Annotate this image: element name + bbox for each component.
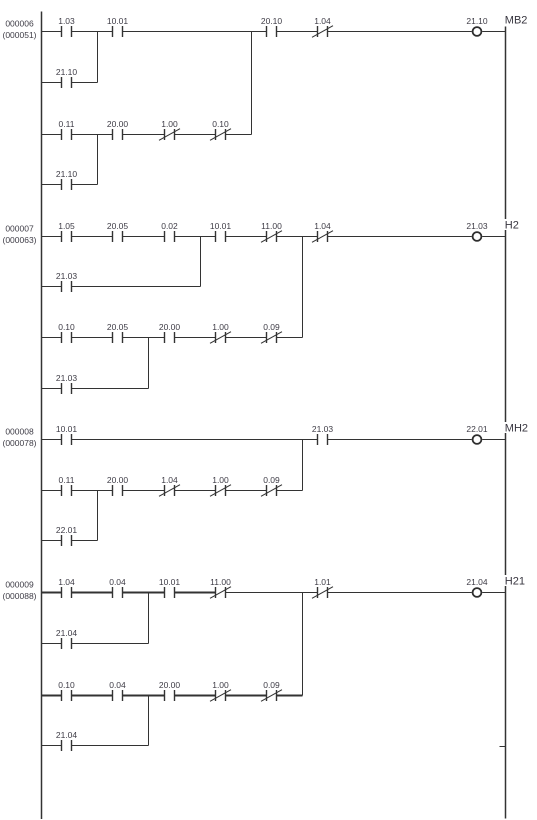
svg-text:000007: 000007	[5, 224, 34, 234]
svg-text:0.02: 0.02	[161, 221, 178, 231]
wire 11.00 to 1.01 (via node x302)	[226, 592, 318, 594]
wire 11.00 to 1.04 (via node x302)	[277, 236, 318, 238]
svg-text:(000088): (000088)	[2, 591, 36, 601]
wire 21.03 branch2 to node x148 rung7	[72, 388, 149, 390]
svg-text:MB2: MB2	[505, 15, 528, 27]
vertical wire node x302 rung9	[302, 593, 304, 696]
contact 21.10 (NO)	[56, 67, 78, 88]
contact 0.11 (NO)	[59, 475, 75, 496]
wire 10.01 to 11.00 rung9 (bold)	[175, 592, 216, 594]
svg-text:20.10: 20.10	[261, 16, 283, 26]
wire 1.01 to coil 21.04	[328, 592, 472, 594]
wire 0.11 to 20.00 (via node x97) rung8	[72, 490, 113, 492]
svg-text:(000063): (000063)	[2, 235, 36, 245]
wire 20.00 to 1.00 rung7	[175, 337, 216, 339]
wire 1.00 to 0.09 rung8	[226, 490, 267, 492]
contact 20.00 (NO)	[159, 680, 181, 701]
vertical wire node x148 sub rung9	[148, 696, 150, 746]
rung label 000006 (000051)	[2, 19, 36, 41]
wire 21.10 branch2 to node rung6	[72, 184, 98, 186]
contact 0.09 (NC)	[261, 680, 282, 702]
vertical wire node x97 sub rung8	[97, 491, 99, 541]
wire 20.00 to 1.04 rung8	[123, 490, 165, 492]
contact 21.04 (NO)	[56, 730, 78, 751]
vertical wire node x302 rung7	[302, 237, 304, 338]
svg-text:1.03: 1.03	[58, 16, 75, 26]
svg-text:(000051): (000051)	[2, 30, 36, 40]
contact 0.09 (NC)	[261, 322, 282, 344]
wire coil 22.01 to right rail	[482, 439, 505, 441]
contact 1.03 (NO)	[58, 16, 75, 37]
output device label H21	[504, 575, 530, 588]
vertical wire node x148 sub rung7	[148, 338, 150, 389]
svg-text:10.01: 10.01	[210, 221, 232, 231]
contact 1.00 (NC)	[210, 680, 231, 702]
svg-text:21.10: 21.10	[56, 169, 78, 179]
svg-text:21.03: 21.03	[56, 373, 78, 383]
wire rail to 0.10 rung7	[42, 337, 62, 339]
wire 0.02 to 10.01 (via node x199)	[175, 236, 216, 238]
wire 0.10 to 0.04 rung9 (bold)	[72, 695, 113, 697]
coil 21.10	[466, 16, 488, 36]
vertical wire node x199 rung7	[200, 237, 202, 287]
svg-text:10.01: 10.01	[107, 16, 129, 26]
wire rail to 1.05	[42, 236, 62, 238]
svg-text:20.00: 20.00	[107, 119, 129, 129]
output device label MH2	[504, 422, 530, 435]
vertical wire node x302 rung8	[302, 440, 304, 491]
svg-text:1.00: 1.00	[161, 119, 178, 129]
svg-text:1.04: 1.04	[161, 475, 178, 485]
coil 21.04	[466, 577, 488, 597]
wire 21.04 branch2 to node x148 rung9	[72, 745, 149, 747]
wire rail to 0.10 rung9 (bold)	[42, 695, 62, 697]
output device label H2	[504, 219, 530, 232]
contact 20.00 (NO)	[107, 119, 129, 140]
contact 21.04 (NO)	[56, 628, 78, 649]
wire 21.03 branch to node x199 rung7	[72, 286, 201, 288]
wire 1.00 to 0.10	[175, 134, 216, 136]
svg-text:21.10: 21.10	[466, 16, 488, 26]
contact 1.00 (NC)	[159, 119, 180, 141]
wire 1.04 to coil 21.03	[328, 236, 472, 238]
contact 0.04 (NO)	[109, 577, 126, 598]
vertical wire node x148 rung9	[148, 593, 150, 644]
wire 0.04 to 10.01 (via node x148, bold)	[123, 592, 165, 594]
contact 1.04 (NC)	[312, 221, 333, 243]
svg-text:H21: H21	[505, 576, 525, 588]
svg-text:10.01: 10.01	[159, 577, 181, 587]
vertical wire node x97 sub rung6	[97, 135, 99, 185]
wire coil 21.04 to right rail	[482, 592, 505, 594]
wire 0.11 to 20.00 (via node)	[72, 134, 113, 136]
contact 1.00 (NC)	[210, 475, 231, 497]
svg-text:20.05: 20.05	[107, 322, 129, 332]
wire 0.10 to vertical x251	[226, 134, 252, 136]
contact 21.10 (NO)	[56, 169, 78, 190]
contact 21.03 (NO)	[312, 424, 334, 445]
wire 20.00 to 1.00	[123, 134, 165, 136]
wire rail to 21.04 branch rung9	[42, 643, 62, 645]
svg-text:0.11: 0.11	[59, 119, 75, 129]
rung label 000007 (000063)	[2, 224, 36, 246]
wire 20.05 to 20.00 (via node x148)	[123, 337, 165, 339]
wire 1.04 to coil 21.10	[328, 31, 472, 33]
contact 1.05 (NO)	[58, 221, 75, 242]
svg-text:1.00: 1.00	[212, 475, 229, 485]
vertical wire node at x251 rung6	[251, 32, 253, 135]
svg-text:H2: H2	[505, 220, 519, 232]
wire 20.10 to 1.04	[277, 31, 318, 33]
svg-text:0.09: 0.09	[263, 475, 280, 485]
svg-text:0.11: 0.11	[59, 475, 75, 485]
wire 1.05 to 20.05	[72, 236, 113, 238]
contact 0.11 (NO)	[59, 119, 75, 140]
wire 1.04 to 1.00 rung8	[175, 490, 216, 492]
contact 1.00 (NC)	[210, 322, 231, 344]
svg-text:1.01: 1.01	[314, 577, 331, 587]
contact 0.10 (NC)	[210, 119, 231, 141]
contact 1.01 (NC)	[312, 577, 333, 599]
right power rail	[505, 27, 507, 819]
svg-text:21.04: 21.04	[56, 730, 78, 740]
wire 22.01 branch to node x97 rung8	[72, 540, 98, 542]
wire coil 21.10 to right rail	[482, 31, 505, 33]
svg-text:11.00: 11.00	[261, 221, 282, 231]
wire rail to 22.01 branch rung8	[42, 540, 62, 542]
contact 0.09 (NC)	[261, 475, 282, 497]
svg-text:21.04: 21.04	[56, 628, 78, 638]
left power rail	[41, 12, 43, 820]
contact 10.01 (NO)	[210, 221, 232, 242]
contact 1.04 (NC)	[159, 475, 180, 497]
wire 10.01 to 20.10 (via node)	[123, 31, 267, 33]
svg-text:(000078): (000078)	[2, 438, 36, 448]
contact 21.03 (NO)	[56, 271, 78, 292]
wire rail to 1.04 rung9 (bold)	[42, 592, 62, 594]
svg-text:000009: 000009	[5, 580, 34, 590]
wire rail to 0.11 rung6	[42, 134, 62, 136]
contact 11.00 (NC)	[261, 221, 282, 243]
contact 22.01 (NO)	[56, 525, 78, 546]
contact 11.00 (NC)	[210, 577, 231, 599]
wire rail to 10.01 rung8	[42, 439, 62, 441]
svg-text:21.10: 21.10	[56, 67, 78, 77]
coil 22.01	[466, 424, 488, 444]
wire 0.09 to vertical x302 rung9 (bold)	[277, 695, 303, 697]
contact 0.04 (NO)	[109, 680, 126, 701]
wire 1.04 to 0.04 rung9 (bold)	[72, 592, 113, 594]
rung label 000009 (000088)	[2, 580, 36, 602]
svg-text:0.04: 0.04	[109, 577, 126, 587]
contact 0.10 (NO)	[58, 322, 75, 343]
svg-text:20.00: 20.00	[159, 322, 181, 332]
rung label 000008 (000078)	[2, 427, 36, 449]
contact 20.05 (NO)	[107, 221, 129, 242]
wire 10.01 to 11.00	[226, 236, 267, 238]
wire rail to 21.03 branch2 rung7	[42, 388, 62, 390]
svg-text:000006: 000006	[5, 19, 34, 29]
wire 20.05 to 0.02	[123, 236, 165, 238]
contact 0.10 (NO)	[58, 680, 75, 701]
svg-text:21.03: 21.03	[56, 271, 78, 281]
contact 21.03 (NO)	[56, 373, 78, 394]
wire rail to 21.10 branch2 rung6	[42, 184, 62, 186]
svg-text:1.00: 1.00	[212, 322, 229, 332]
wire 21.10 branch to node rung6	[72, 82, 98, 84]
wire rail to 21.10 branch rung6	[42, 82, 62, 84]
wire 1.03 to 10.01 (via node)	[72, 31, 113, 33]
wire 20.00 to 1.00 rung9 (bold)	[175, 695, 216, 697]
contact 1.04 (NO)	[58, 577, 75, 598]
contact 20.00 (NO)	[159, 322, 181, 343]
svg-text:1.04: 1.04	[58, 577, 75, 587]
svg-text:0.10: 0.10	[58, 322, 75, 332]
wire 0.10 to 20.05 rung7	[72, 337, 113, 339]
contact 10.01 (NO)	[107, 16, 129, 37]
contact 1.04 (NC)	[312, 16, 333, 38]
wire 1.00 to 0.09 rung7	[226, 337, 267, 339]
svg-text:000008: 000008	[5, 427, 34, 437]
coil 21.03	[466, 221, 488, 241]
svg-text:20.00: 20.00	[107, 475, 129, 485]
svg-text:21.04: 21.04	[466, 577, 488, 587]
contact 0.02 (NO)	[161, 221, 178, 242]
contact 20.05 (NO)	[107, 322, 129, 343]
wire 0.09 to vertical x302 rung7	[277, 337, 303, 339]
svg-text:1.04: 1.04	[314, 221, 331, 231]
svg-text:10.01: 10.01	[56, 424, 78, 434]
stub on right rail	[500, 746, 506, 748]
svg-text:1.04: 1.04	[314, 16, 331, 26]
wire 0.09 to vertical x302 rung8	[277, 490, 303, 492]
svg-text:21.03: 21.03	[466, 221, 488, 231]
wire rail to 21.04 branch2 rung9	[42, 745, 62, 747]
svg-text:11.00: 11.00	[210, 577, 231, 587]
wire 0.04 to 20.00 (via node x148, bold)	[123, 695, 165, 697]
svg-text:0.09: 0.09	[263, 680, 280, 690]
svg-text:22.01: 22.01	[466, 424, 488, 434]
wire rail to 1.03	[42, 31, 62, 33]
wire 10.01 to 21.03 (via node x302)	[72, 439, 318, 441]
contact 10.01 (NO)	[159, 577, 181, 598]
svg-text:0.04: 0.04	[109, 680, 126, 690]
svg-text:1.05: 1.05	[58, 221, 75, 231]
svg-text:22.01: 22.01	[56, 525, 78, 535]
svg-text:0.10: 0.10	[212, 119, 229, 129]
vertical wire node at x97 rung6	[97, 32, 99, 83]
svg-text:0.09: 0.09	[263, 322, 280, 332]
contact 10.01 (NO)	[56, 424, 78, 445]
svg-text:MH2: MH2	[505, 423, 528, 435]
wire 21.03 to coil 22.01	[328, 439, 472, 441]
wire rail to 21.03 branch rung7	[42, 286, 62, 288]
wire rail to 0.11 rung8	[42, 490, 62, 492]
svg-text:0.10: 0.10	[58, 680, 75, 690]
output device label MB2	[504, 14, 530, 27]
wire 21.04 branch to node x148 rung9	[72, 643, 149, 645]
svg-text:20.05: 20.05	[107, 221, 129, 231]
svg-text:1.00: 1.00	[212, 680, 229, 690]
contact 20.00 (NO)	[107, 475, 129, 496]
wire coil 21.03 to right rail	[482, 236, 505, 238]
wire 1.00 to 0.09 rung9 (bold)	[226, 695, 267, 697]
svg-text:20.00: 20.00	[159, 680, 181, 690]
contact 20.10 (NO)	[261, 16, 283, 37]
svg-text:21.03: 21.03	[312, 424, 334, 434]
